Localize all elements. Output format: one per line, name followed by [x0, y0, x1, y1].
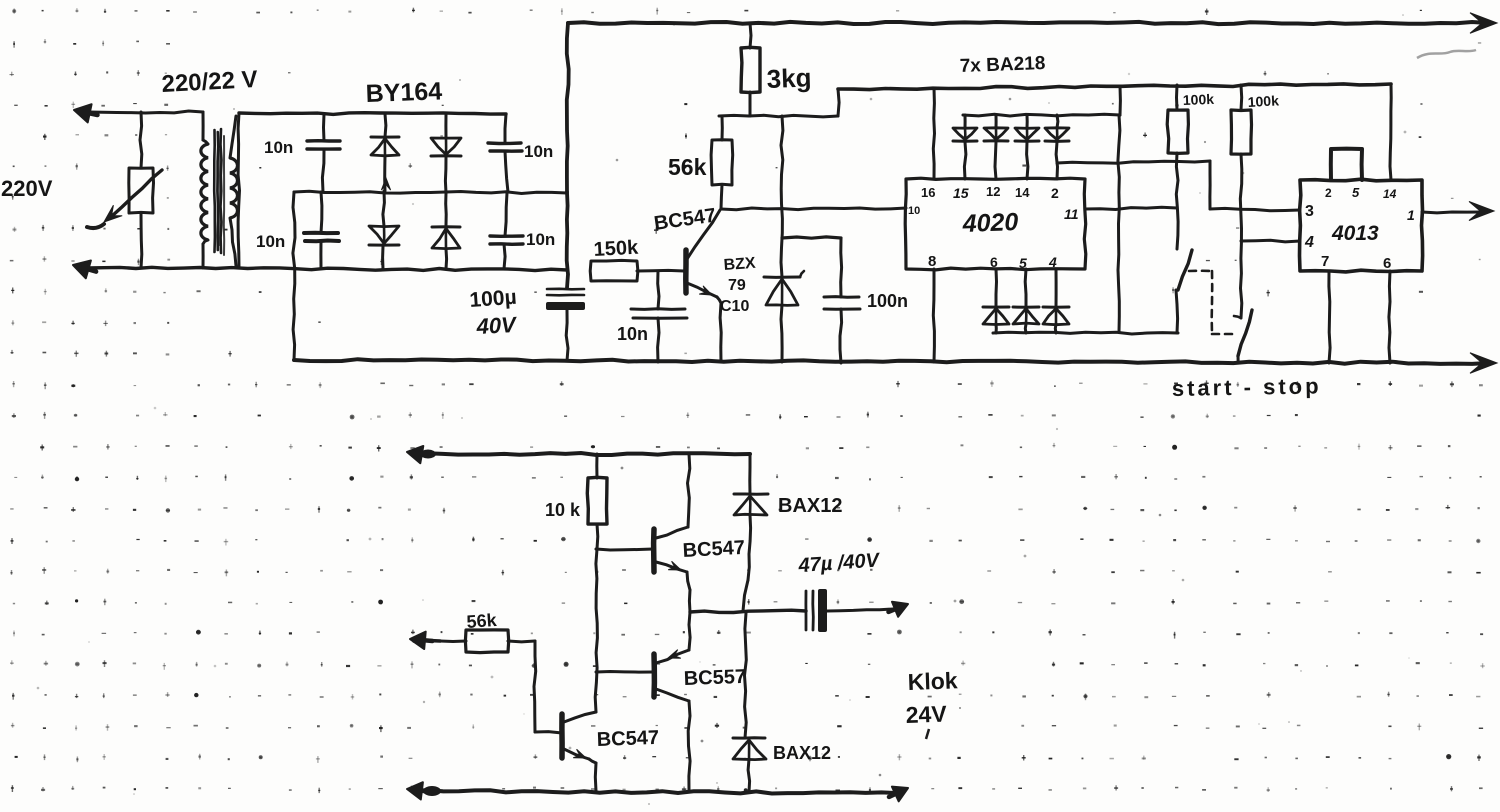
wire bottom rail top-section: [294, 359, 1488, 364]
svg-text:56k: 56k: [668, 154, 707, 180]
wire 4013 pin14 lead: [1390, 84, 1391, 180]
svg-text:7x BA218: 7x BA218: [959, 53, 1045, 77]
transformer core: [214, 129, 224, 255]
switch S2 lever: [1238, 310, 1252, 363]
node top rail right arrow: [1470, 13, 1497, 34]
svg-text:47µ /40V: 47µ /40V: [797, 549, 881, 577]
label C3 10n: [256, 232, 285, 251]
transformer secondary lead bottom: [230, 218, 236, 266]
label Klok: [907, 667, 958, 695]
svg-text:14: 14: [1383, 187, 1397, 201]
varistor arrow: [87, 170, 162, 228]
svg-text:10n: 10n: [617, 324, 648, 344]
svg-text:11: 11: [1064, 206, 1079, 222]
svg-text:16: 16: [921, 185, 935, 200]
node bs bottom rail right arrow: [889, 787, 908, 802]
svg-text:100k: 100k: [1247, 92, 1279, 110]
transformer primary lead: [203, 112, 208, 144]
svg-text:3: 3: [1305, 203, 1314, 220]
label C6 10n: [617, 324, 648, 344]
transformer secondary lead top: [230, 116, 236, 158]
svg-text:6: 6: [990, 254, 998, 270]
zener Z1 BZX79C10: [764, 271, 804, 362]
wire 4013 pin6 lead: [1389, 271, 1390, 363]
label pin15: [953, 185, 969, 201]
resistor R7 56k: [440, 630, 535, 653]
diode D7 BA218 top: [1015, 115, 1039, 179]
wire left vertical from top rail: [567, 23, 569, 288]
wire pin8 lead: [933, 269, 934, 362]
label 7x BA218: [959, 53, 1045, 77]
diode D8 BA218 top: [1045, 115, 1069, 179]
wire output node: [690, 610, 806, 612]
label C4 10n: [526, 230, 555, 249]
label 220/22V: [161, 66, 258, 98]
svg-text:10n: 10n: [256, 232, 285, 251]
wire R4 lower lead: [1176, 153, 1178, 249]
wire 56k to Q4 base: [534, 641, 562, 733]
wire bottom-section top rail: [412, 453, 750, 455]
wire bridge left edge: [238, 113, 239, 268]
varistor lead top: [140, 112, 142, 168]
wire bottom-section bottom rail: [412, 790, 897, 793]
svg-text:4020: 4020: [961, 208, 1019, 238]
label Q2 BC547: [682, 537, 745, 562]
diode D11 BA218 bottom: [1043, 269, 1069, 333]
wire Q2 base wire: [596, 549, 653, 550]
capacitor C8 47u/40V: [806, 589, 893, 632]
svg-text:C10: C10: [720, 298, 749, 315]
label 4013 pin14: [1383, 187, 1397, 201]
node input terminal bottom arrow: [73, 261, 96, 279]
label 220V: [1, 176, 53, 201]
svg-text:8: 8: [928, 253, 936, 270]
label 40V: [475, 312, 519, 339]
svg-text:5: 5: [1352, 185, 1360, 200]
wire dashed coupling: [1189, 271, 1234, 334]
wire pin2 node to right: [1057, 161, 1300, 211]
svg-text:220V: 220V: [1, 176, 53, 201]
label R4 100k: [1183, 91, 1215, 108]
label 24V: [905, 701, 947, 739]
wire stub rail2 to diode rail: [1119, 86, 1122, 115]
diode D9 BA218 bottom: [983, 269, 1009, 333]
label R7 56k: [466, 610, 498, 632]
switch S2 contact hook: [1234, 316, 1241, 318]
diode D1 bridge top-left: [371, 114, 399, 191]
wire input top: [88, 111, 203, 113]
resistor R3 3k9: [741, 23, 760, 116]
node bs top rail left arrow: [407, 446, 436, 463]
wire long vertical right of 4020: [1118, 115, 1120, 332]
varistor lead bottom: [140, 213, 144, 268]
svg-text:BY164: BY164: [365, 77, 442, 108]
svg-text:15: 15: [953, 185, 969, 201]
capacitor C6 10n base: [631, 271, 687, 362]
label pin6: [990, 254, 998, 270]
label C10: [720, 298, 749, 315]
diode D6 BA218 top: [984, 115, 1008, 179]
svg-text:BAX12: BAX12: [773, 743, 831, 763]
label D12 BAX12: [778, 495, 842, 517]
label 4013 pin4: [1304, 234, 1314, 251]
wire bridge top: [239, 113, 506, 115]
svg-text:4: 4: [1304, 234, 1314, 251]
wire collector node y116: [719, 115, 838, 117]
resistor R1 150k: [590, 260, 684, 281]
label Q1 BC547: [653, 204, 718, 234]
label 10k: [545, 500, 581, 520]
diode D12 BAX12 top: [734, 454, 768, 611]
node 56k input arrow: [410, 632, 440, 649]
diode D4 bridge bottom-right: [432, 193, 460, 269]
capacitor C1 10n top-left: [307, 114, 340, 192]
label pin8: [928, 253, 936, 270]
wire bridge middle rail: [294, 191, 567, 193]
svg-text:4013: 4013: [1331, 222, 1379, 245]
svg-text:150k: 150k: [593, 237, 639, 261]
svg-text:10n: 10n: [264, 138, 293, 157]
resistor R2 56k: [711, 116, 733, 209]
svg-text:100µ: 100µ: [469, 286, 518, 312]
node bottom rail right arrow: [1470, 353, 1497, 374]
wire 4013 loop pins 2-5: [1331, 149, 1362, 180]
label pin12: [986, 184, 1000, 199]
svg-text:7: 7: [1321, 253, 1329, 270]
svg-text:40V: 40V: [475, 312, 519, 339]
wire pin11 to 100k: [1085, 207, 1177, 209]
wire top supply rail: [568, 22, 1488, 24]
varistor body: [129, 168, 154, 213]
wire bottom mid rail: [88, 267, 567, 270]
capacitor C7 100n: [782, 237, 860, 363]
label start-stop: [1172, 373, 1322, 401]
label 47u/40V: [797, 549, 881, 577]
svg-text:10n: 10n: [526, 230, 555, 249]
label 4013 pin7: [1321, 253, 1329, 270]
wire 4013 pin1 out: [1422, 202, 1494, 221]
IC U1 4020 box: [905, 178, 1086, 270]
label Q3 BC557: [683, 666, 746, 690]
label 100u: [469, 286, 518, 312]
transformer secondary winding: [230, 158, 238, 218]
wire R5 lower lead: [1240, 154, 1242, 318]
label 4013 pin6: [1383, 255, 1391, 272]
resistor R5 100k: [1231, 85, 1252, 154]
svg-text:BZX: BZX: [723, 255, 756, 274]
svg-text:10: 10: [908, 205, 920, 217]
svg-text:100k: 100k: [1183, 91, 1215, 108]
diode D2 bridge top-right: [431, 114, 461, 193]
wire base bus vertical: [595, 549, 597, 712]
label pin4b: [1048, 254, 1057, 270]
diode D5 BA218 top: [953, 115, 977, 179]
label pin2: [1051, 185, 1059, 201]
diode D3 bridge bottom-left: [369, 191, 399, 269]
node output arrow: [889, 602, 909, 617]
svg-text:6: 6: [1383, 255, 1391, 272]
label 3k9: [766, 62, 812, 94]
label 100n: [867, 291, 908, 311]
wire base node to 4020 pin10: [721, 208, 906, 210]
label 56k: [668, 154, 707, 180]
wire 4013 pin7 lead: [1329, 271, 1330, 363]
label D13 BAX12: [773, 743, 831, 763]
capacitor C5 100u/40V: [546, 289, 585, 361]
label pin11: [1064, 206, 1079, 222]
svg-text:BC547: BC547: [682, 537, 745, 562]
label pin16: [921, 185, 935, 200]
node bs bottom rail left arrow: [407, 782, 441, 799]
label 4013 pin2: [1325, 186, 1332, 200]
svg-text:100n: 100n: [867, 291, 908, 311]
wire bridge lower-left vertical: [293, 192, 295, 360]
svg-text:2: 2: [1051, 185, 1059, 201]
svg-text:56k: 56k: [466, 610, 498, 632]
label Q4 BC547: [596, 727, 659, 751]
node input terminal top arrow: [74, 104, 98, 122]
wire step up: [838, 89, 839, 116]
resistor R6 10k: [587, 454, 607, 549]
svg-text:Klok: Klok: [907, 667, 958, 695]
label R5 100k: [1247, 92, 1279, 110]
capacitor C2 10n top-right: [488, 114, 522, 192]
label pin14: [1015, 185, 1030, 200]
svg-text:220/22 V: 220/22 V: [161, 66, 258, 98]
label 4013 pin1: [1407, 207, 1415, 223]
transistor Q2 BC547: [654, 454, 690, 612]
label C2 10n: [524, 142, 553, 161]
svg-text:2: 2: [1325, 186, 1332, 200]
label 4020: [961, 208, 1019, 238]
svg-text:10n: 10n: [524, 142, 553, 161]
svg-text:BC557: BC557: [683, 666, 746, 690]
capacitor C3 10n bottom-left: [304, 192, 339, 268]
label 150k: [593, 237, 639, 261]
label 4013 pin3: [1305, 203, 1314, 220]
svg-text:1: 1: [1407, 207, 1415, 223]
wire zener branch upper: [781, 116, 783, 277]
transistor Q1 BC547: [686, 210, 721, 362]
transistor Q4 BC547: [562, 712, 596, 791]
transistor Q3 BC557: [596, 612, 690, 791]
svg-text:10 k: 10 k: [545, 500, 581, 520]
switch S1 lever: [1176, 250, 1192, 333]
transformer primary winding: [201, 144, 208, 240]
wire diode bottom rail: [993, 332, 1178, 334]
wire pin4 wire: [1241, 240, 1300, 242]
label C1 10n: [264, 138, 293, 157]
capacitor C4 10n bottom-right: [490, 193, 523, 269]
diode D10 BA218 bottom: [1013, 269, 1039, 333]
label BZX: [723, 255, 756, 274]
resistor R4 100k: [1167, 85, 1188, 153]
svg-text:79: 79: [728, 277, 746, 294]
label pin10: [908, 205, 920, 217]
transformer primary lead bottom: [203, 240, 208, 268]
wire supply rail 2: [838, 84, 1391, 90]
diode D13 BAX12 bottom: [733, 738, 766, 792]
wire BAX lower branch: [745, 613, 747, 738]
IC U2 4013 box: [1300, 179, 1423, 272]
svg-text:24V: 24V: [905, 701, 947, 728]
svg-text:BC547: BC547: [596, 727, 659, 751]
svg-text:14: 14: [1015, 185, 1030, 200]
svg-text:3kg: 3kg: [766, 62, 812, 94]
label 4013: [1331, 222, 1379, 245]
label 79: [728, 277, 746, 294]
label pin5: [1019, 255, 1027, 271]
wire diode top rail: [963, 114, 1120, 116]
svg-text:start - stop: start - stop: [1172, 373, 1322, 401]
svg-text:12: 12: [986, 184, 1000, 199]
svg-text:BAX12: BAX12: [778, 495, 842, 517]
label BY164: [365, 77, 442, 108]
label 4013 pin5: [1352, 185, 1360, 200]
wire pin16 lead: [933, 88, 934, 179]
